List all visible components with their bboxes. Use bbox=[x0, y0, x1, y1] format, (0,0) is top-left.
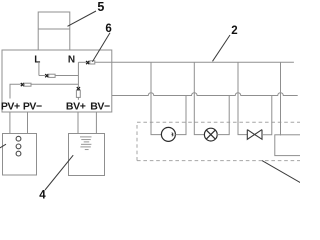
svg-text:N: N bbox=[68, 54, 75, 65]
PV panel terminal circle 2 bbox=[16, 144, 21, 149]
wire: node to fuse 6 bbox=[78, 61, 86, 63]
leader 3 (cut at edge) bbox=[0, 144, 6, 148]
battery box 4 bbox=[69, 134, 105, 176]
svg-text:L: L bbox=[34, 54, 40, 65]
battery plates bbox=[80, 137, 92, 150]
wire: BV+ drop to box4 bbox=[77, 112, 79, 134]
PV panel terminal circle 1 bbox=[16, 136, 21, 141]
fuse F6 body bbox=[90, 61, 95, 64]
fuse C body (vertical) bbox=[76, 90, 80, 97]
meter box 5 bbox=[38, 12, 70, 50]
svg-text:PV+: PV+ bbox=[1, 100, 20, 112]
fuse B body bbox=[24, 83, 31, 86]
fan M2 circle-X bbox=[204, 128, 217, 141]
wire: branch1 return bbox=[175, 96, 186, 135]
wire: return line with hops bbox=[112, 93, 298, 96]
leader 4 bbox=[45, 155, 73, 190]
wire: L drop bbox=[38, 63, 40, 76]
wire: fuse A to main vertical bbox=[55, 75, 78, 77]
pump M1 inner mark bbox=[172, 133, 174, 136]
PV panel terminal circle 3 bbox=[16, 151, 21, 156]
svg-text:2: 2 bbox=[231, 25, 237, 37]
fuse F6 x-contact bbox=[86, 61, 89, 64]
svg-text:5: 5 bbox=[97, 0, 104, 14]
wire: AC bus (top) bbox=[95, 61, 294, 63]
load box bbox=[275, 135, 303, 156]
wire: branch3 feed bbox=[238, 62, 247, 134]
svg-text:BV+: BV+ bbox=[66, 100, 86, 112]
wire: fuse B to main vertical bbox=[31, 83, 78, 85]
wire: branch2 return bbox=[217, 96, 229, 135]
PV panel box 3 bbox=[3, 134, 37, 176]
fuse C x-contact bbox=[77, 87, 80, 90]
wire: PV- drop to box3 bbox=[27, 112, 29, 134]
wire: branch4 feed to load box bbox=[280, 62, 282, 135]
svg-text:6: 6 bbox=[105, 23, 111, 35]
wire: PV+ drop to box3 bbox=[9, 112, 11, 134]
wire: fuse C stub to BV+ bbox=[77, 97, 79, 99]
leader bottom-right (to off-image label) bbox=[262, 161, 301, 183]
fuse B x-contact bbox=[21, 83, 24, 86]
wire: branch2 feed bbox=[194, 62, 204, 134]
wire: PV line left corner bbox=[10, 84, 21, 98]
dashed enclosure (load room) bbox=[137, 122, 300, 160]
wire: BV- drop to box4 bbox=[95, 112, 97, 134]
fuse A x-contact bbox=[45, 74, 48, 77]
inverter box (main) bbox=[2, 50, 112, 112]
svg-text:BV−: BV− bbox=[90, 100, 110, 112]
leader 5 bbox=[68, 11, 97, 26]
wire: main vertical node bbox=[77, 62, 79, 87]
svg-text:PV−: PV− bbox=[23, 100, 42, 112]
svg-text:4: 4 bbox=[39, 190, 46, 200]
fuse A body bbox=[49, 74, 55, 77]
leader 6 bbox=[92, 33, 110, 62]
wire: branch1 feed bbox=[151, 62, 161, 134]
pump M1 circle bbox=[161, 127, 175, 141]
meter divider bbox=[38, 28, 70, 30]
wire: L line to fuse A bbox=[39, 75, 45, 77]
valve V1 (bowtie) bbox=[247, 130, 262, 140]
wire: branch3 return bbox=[262, 96, 272, 135]
leader 2 bbox=[213, 35, 231, 61]
